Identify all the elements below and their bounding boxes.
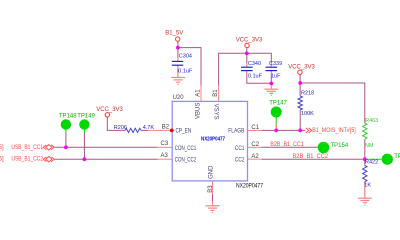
- svg-text:[5]: [5]: [0, 157, 4, 163]
- svg-text:C340: C340: [248, 61, 261, 67]
- svg-text:TP154: TP154: [331, 143, 349, 149]
- svg-text:NX20P0477: NX20P0477: [201, 136, 225, 142]
- svg-text:B2B_B1_CC2: B2B_B1_CC2: [293, 154, 329, 160]
- svg-text:VCC_3V3: VCC_3V3: [96, 107, 123, 113]
- svg-text:C2: C2: [251, 142, 259, 148]
- svg-text:0.1uF: 0.1uF: [178, 68, 193, 74]
- svg-text:A2: A2: [251, 154, 259, 160]
- svg-text:GND: GND: [209, 165, 215, 179]
- svg-text:TP164: TP164: [394, 154, 400, 160]
- svg-text:CON_CC1: CON_CC1: [175, 146, 197, 152]
- svg-text:U20: U20: [173, 95, 185, 101]
- svg-text:B2: B2: [162, 125, 170, 131]
- svg-text:CP_EN: CP_EN: [176, 129, 192, 135]
- svg-text:B3: B3: [208, 185, 214, 193]
- svg-text:FLAGB: FLAGB: [228, 129, 244, 135]
- svg-text:USB_B1_CC2: USB_B1_CC2: [11, 157, 43, 163]
- svg-text:USB_B1_CC1: USB_B1_CC1: [11, 145, 43, 151]
- svg-text:100K: 100K: [301, 111, 314, 117]
- svg-text:R206: R206: [114, 125, 127, 131]
- svg-text:NX20P0477: NX20P0477: [236, 184, 264, 190]
- svg-text:R463: R463: [365, 118, 378, 124]
- svg-text:C1: C1: [251, 125, 259, 131]
- svg-text:A1: A1: [195, 89, 201, 97]
- svg-text:VBUS: VBUS: [195, 103, 201, 119]
- svg-text:NM: NM: [365, 143, 374, 149]
- svg-text:C304: C304: [179, 54, 192, 60]
- svg-text:C3: C3: [161, 141, 169, 147]
- svg-text:CC2: CC2: [235, 158, 245, 164]
- svg-text:TP148: TP148: [59, 114, 77, 120]
- svg-text:VCC_3V3: VCC_3V3: [288, 64, 315, 70]
- svg-text:CC1: CC1: [235, 146, 245, 152]
- svg-text:VSYS: VSYS: [213, 104, 219, 120]
- svg-text:B1_MOIS_INT#[5]: B1_MOIS_INT#[5]: [312, 128, 356, 134]
- svg-text:B1_5V: B1_5V: [165, 31, 183, 37]
- svg-text:TP149: TP149: [77, 114, 95, 120]
- svg-text:A3: A3: [161, 153, 169, 159]
- svg-text:[5]: [5]: [0, 145, 4, 151]
- svg-text:1K: 1K: [364, 183, 371, 189]
- svg-text:4.7K: 4.7K: [143, 125, 155, 131]
- svg-text:B2B_B1_CC1: B2B_B1_CC1: [270, 142, 304, 148]
- svg-text:C339: C339: [269, 61, 282, 67]
- svg-text:R422: R422: [365, 160, 378, 166]
- svg-text:R218: R218: [301, 91, 314, 97]
- svg-text:VCC_3V3: VCC_3V3: [236, 37, 263, 43]
- svg-text:0.1uF: 0.1uF: [248, 73, 263, 79]
- svg-text:TP147: TP147: [269, 101, 287, 107]
- svg-text:B1: B1: [213, 89, 219, 97]
- svg-text:CON_CC2: CON_CC2: [175, 158, 197, 164]
- svg-text:1uF: 1uF: [271, 73, 281, 79]
